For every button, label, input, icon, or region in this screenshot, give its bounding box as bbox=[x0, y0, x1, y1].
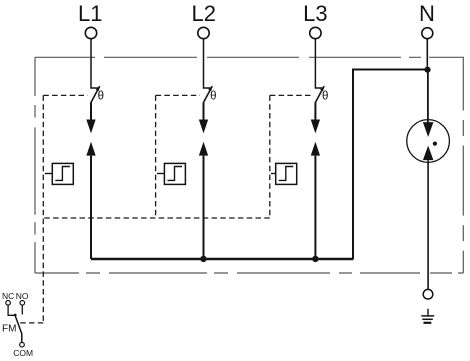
svg-text:NO: NO bbox=[16, 291, 29, 301]
disconnect indicator box 1 bbox=[52, 163, 73, 184]
wire L3 terminal to disconnector bbox=[315, 39, 322, 88]
wire L2 terminal to disconnector bbox=[204, 39, 211, 88]
spark gap FV1 upper electrode bbox=[86, 120, 95, 134]
thermal disconnector F2 blade bbox=[204, 86, 213, 102]
disconnect indicator box 3 bbox=[276, 163, 297, 184]
enclosure dashed border bottom bbox=[35, 272, 463, 274]
wire L1 terminal to disconnector bbox=[91, 39, 98, 88]
terminal COM bbox=[20, 342, 25, 347]
svg-text:COM: COM bbox=[13, 348, 33, 358]
terminal L3 bbox=[310, 27, 321, 38]
indicator box stub 3 bbox=[271, 173, 276, 175]
spark gap FV2 upper electrode bbox=[199, 120, 208, 134]
terminal NO bbox=[20, 301, 25, 306]
module 2 dashed top edge bbox=[156, 94, 200, 96]
wire blade to spark gap bbox=[314, 102, 316, 119]
spark gap FV1 lower electrode bbox=[86, 142, 95, 156]
module 1 dashed top edge bbox=[43, 94, 87, 96]
svg-text:θ: θ bbox=[210, 90, 216, 102]
common bus wire bbox=[91, 258, 353, 260]
enclosure dashed border top bbox=[35, 57, 463, 273]
terminal N bbox=[422, 28, 433, 39]
svg-text:L2: L2 bbox=[192, 1, 216, 26]
svg-text:θ: θ bbox=[322, 90, 328, 102]
svg-text:θ: θ bbox=[98, 90, 104, 102]
thermal disconnector F3 blade bbox=[316, 86, 325, 102]
spark gap FV3 upper electrode bbox=[311, 120, 320, 134]
earth terminal bbox=[423, 289, 433, 299]
enclosure dashed border left bbox=[34, 57, 36, 273]
wire spark gap to bus bbox=[203, 156, 205, 259]
wire NO stub bbox=[21, 305, 23, 314]
FM linkage dashed horizontal bbox=[18, 322, 43, 324]
wire bus riser to N junction bbox=[353, 70, 427, 260]
enclosure dashed border right bbox=[462, 57, 464, 273]
wire gas discharge tube to earth terminal bbox=[427, 160, 429, 289]
junction dot N bbox=[424, 67, 430, 73]
gas discharge tube FV4 bbox=[407, 120, 450, 163]
FM pivot dot bbox=[14, 314, 17, 317]
ground symbol bbox=[427, 309, 429, 316]
wire spark gap to bus bbox=[314, 156, 316, 259]
spark gap FV3 lower electrode bbox=[311, 142, 320, 156]
svg-text:FM: FM bbox=[2, 324, 16, 335]
wire NC to pivot bbox=[8, 305, 15, 315]
wire spark gap to bus bbox=[90, 156, 92, 259]
mech-linkage dashed vertical (disconnector to FM) bbox=[18, 95, 312, 323]
disconnect indicator box 2 bbox=[164, 163, 185, 184]
FM switch blade bbox=[15, 315, 22, 343]
spark gap FV2 lower electrode bbox=[199, 142, 208, 156]
junction dot bus-L3 bbox=[312, 256, 318, 262]
module 3 dashed top edge bbox=[270, 94, 312, 96]
terminal L1 bbox=[85, 27, 96, 38]
terminal L2 bbox=[198, 27, 209, 38]
svg-text:L3: L3 bbox=[303, 1, 327, 26]
junction dot bus-L2 bbox=[200, 256, 206, 262]
indicator box stub 2 bbox=[157, 173, 164, 175]
svg-text:NC: NC bbox=[2, 291, 14, 301]
module common dashed bottom bbox=[43, 217, 269, 219]
svg-text:L1: L1 bbox=[78, 1, 102, 26]
svg-text:N: N bbox=[419, 1, 435, 26]
wire junction to gas discharge tube bbox=[427, 70, 429, 123]
module 2 dashed left edge bbox=[155, 95, 157, 218]
wire N terminal to junction bbox=[426, 39, 428, 70]
module 3 dashed left edge bbox=[269, 95, 271, 218]
terminal NC bbox=[6, 301, 11, 306]
thermal disconnector F1 blade bbox=[91, 86, 100, 102]
indicator box stub 1 bbox=[45, 173, 52, 175]
wire blade to spark gap bbox=[90, 102, 92, 119]
wire blade to spark gap bbox=[203, 102, 205, 119]
